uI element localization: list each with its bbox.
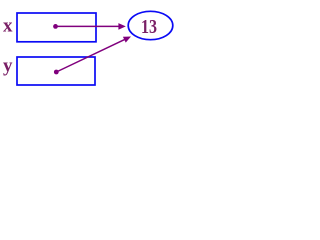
svg-text:13: 13 [141, 16, 157, 38]
svg-text:x: x [3, 16, 13, 37]
node dot in box x [53, 24, 58, 29]
wire: arrow from x dot to ellipse [56, 25, 120, 27]
wire: arrow from y dot to ellipse [56, 39, 125, 72]
background [0, 0, 185, 99]
node dot in box y [54, 70, 59, 75]
ellipse value node [128, 11, 173, 39]
box y [17, 57, 95, 85]
arrowhead of y arrow [123, 34, 133, 43]
arrowhead of x arrow [118, 23, 125, 30]
svg-text:y: y [3, 56, 13, 77]
box x [17, 13, 96, 42]
